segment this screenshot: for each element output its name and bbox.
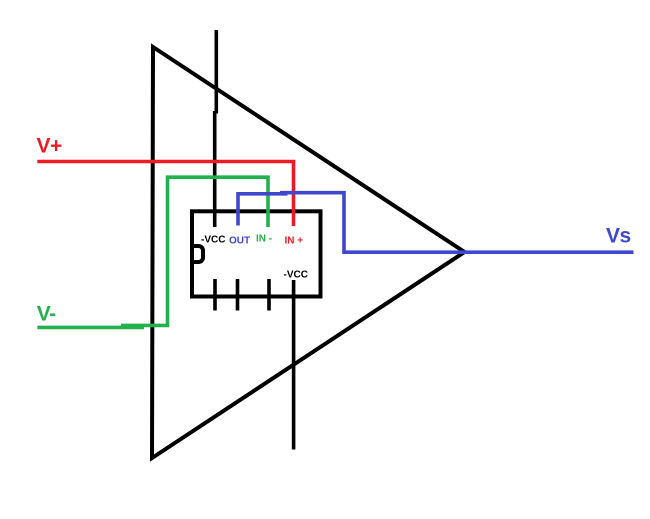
- svg-text:Vs: Vs: [606, 225, 631, 248]
- IC U2 package body: [192, 211, 321, 296]
- svg-text:IN -: IN -: [256, 234, 272, 245]
- wire OUT to Vs (blue): [238, 193, 634, 253]
- svg-text:-VCC: -VCC: [284, 270, 308, 281]
- svg-text:OUT: OUT: [229, 236, 250, 247]
- wire V+ (red) to IN+ pin: [37, 162, 293, 227]
- pin 5 bottom: [213, 279, 217, 311]
- pin 6 bottom: [236, 279, 240, 311]
- svg-text:IN +: IN +: [285, 236, 304, 247]
- op-amp U1 triangle: [152, 47, 465, 458]
- pin-1 notch indicator: [192, 246, 203, 262]
- svg-text:-VCC: -VCC: [201, 234, 225, 245]
- svg-text:V-: V-: [37, 303, 56, 326]
- wire V- (green) to IN- pin: [37, 326, 144, 330]
- svg-text:V+: V+: [37, 135, 63, 158]
- wire -VCC top vertical (pin 1 supply): [215, 30, 217, 227]
- pin 8 -VCC bottom wire: [292, 280, 296, 450]
- pin 7 bottom: [267, 279, 271, 311]
